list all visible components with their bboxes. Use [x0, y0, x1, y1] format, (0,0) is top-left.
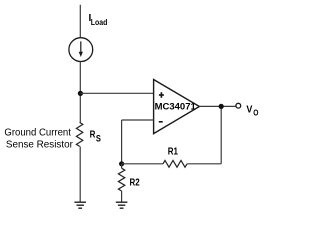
label I_Load [89, 13, 108, 27]
wire node to R2 [121, 164, 123, 168]
wire R1 to output branch [187, 163, 221, 165]
wire node to op-amp + input [80, 92, 153, 94]
svg-text:V: V [246, 105, 252, 116]
svg-text:MC34071: MC34071 [155, 102, 197, 113]
svg-text:R1: R1 [168, 147, 179, 158]
ground under R2 [116, 202, 128, 208]
node junction dot output [219, 104, 224, 109]
node junction dot [78, 91, 83, 96]
label VO [246, 105, 258, 118]
svg-text:R2: R2 [130, 178, 141, 189]
resistor RS zigzag [76, 122, 82, 146]
wire from top to current source [79, 5, 81, 38]
op-amp U1 triangle [154, 80, 200, 134]
current source circle [69, 38, 93, 62]
ground under RS [74, 202, 86, 208]
current source arrow [79, 41, 83, 57]
wire from current source to R_S [79, 62, 81, 123]
label Ground Current Sense Resistor [4, 127, 73, 150]
svg-text:O: O [253, 108, 259, 118]
wire RS to ground [79, 146, 81, 202]
op-amp + symbol [159, 92, 164, 98]
svg-text:Load: Load [91, 17, 108, 27]
svg-text:S: S [96, 134, 101, 144]
wire output vertical branch [220, 106, 222, 163]
resistor R2 zigzag [118, 168, 124, 191]
output terminal circle [236, 103, 241, 108]
op-amp - symbol [159, 121, 163, 123]
svg-text:Ground Current: Ground Current [4, 127, 71, 138]
wire op-amp output [199, 105, 235, 107]
node junction dot feedback [119, 161, 124, 166]
wire feedback vertical [121, 120, 123, 164]
wire R2 to ground [121, 191, 123, 202]
svg-text:Sense Resistor: Sense Resistor [6, 140, 74, 151]
wire node to R1 [122, 163, 163, 165]
label RS [90, 130, 101, 144]
resistor R1 zigzag [163, 160, 187, 167]
wire feedback to op-amp - input [122, 119, 154, 121]
